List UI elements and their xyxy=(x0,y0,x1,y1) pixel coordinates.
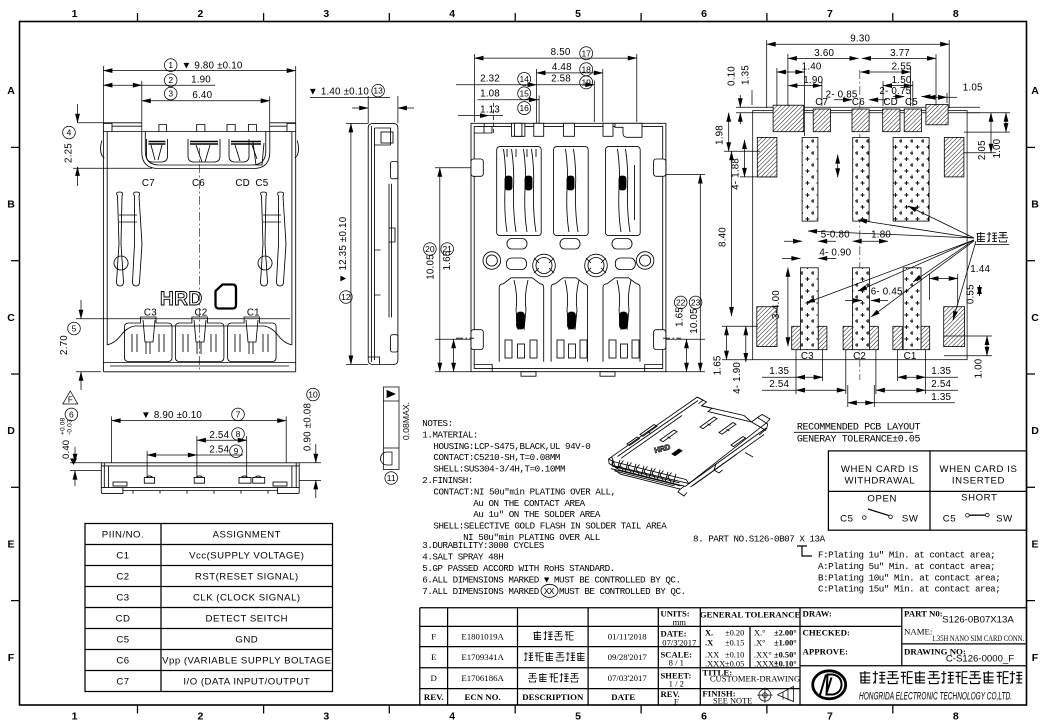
svg-text:2.55: 2.55 xyxy=(892,62,912,73)
svg-text:4- 1.90: 4- 1.90 xyxy=(732,362,743,394)
svg-text:C5: C5 xyxy=(116,635,129,646)
svg-text:▼ 12.35 ±0.10: ▼ 12.35 ±0.10 xyxy=(338,216,349,283)
svg-text:±0.50°: ±0.50° xyxy=(774,651,797,660)
svg-text:2.32: 2.32 xyxy=(480,74,500,85)
svg-text:HONGRIDA ELECTRONIC TECHNOLOGY: HONGRIDA ELECTRONIC TECHNOLOGY CO,LTD. xyxy=(859,691,1012,703)
svg-text:.XX: .XX xyxy=(705,651,719,660)
svg-text:OPEN: OPEN xyxy=(867,493,897,504)
svg-text:PIIN/NO.: PIIN/NO. xyxy=(102,530,144,541)
svg-text:3.77: 3.77 xyxy=(890,48,910,59)
svg-text:5.GP PASSED ACCORD WITH RoHS S: 5.GP PASSED ACCORD WITH RoHS STANDARD. xyxy=(422,563,614,574)
svg-text:19: 19 xyxy=(581,77,591,87)
svg-text:F: F xyxy=(1032,652,1039,664)
svg-text:2.25: 2.25 xyxy=(64,143,75,163)
svg-text:0.10: 0.10 xyxy=(726,66,737,86)
svg-text:HRD: HRD xyxy=(160,289,203,310)
svg-text:2.54: 2.54 xyxy=(209,445,229,456)
svg-text:SHORT: SHORT xyxy=(961,493,997,504)
svg-text:1.44: 1.44 xyxy=(970,264,990,275)
svg-text:.XX°: .XX° xyxy=(754,651,772,660)
svg-text:1.35: 1.35 xyxy=(769,366,789,377)
svg-text:SEE NOTE: SEE NOTE xyxy=(713,697,752,706)
svg-text:0.40: 0.40 xyxy=(61,440,72,459)
svg-text:0.08MAX.: 0.08MAX. xyxy=(401,402,411,440)
svg-text:E: E xyxy=(431,652,436,662)
svg-text:RST(RESET SIGNAL): RST(RESET SIGNAL) xyxy=(195,572,299,583)
svg-text:C7: C7 xyxy=(116,677,129,688)
svg-text:8: 8 xyxy=(953,711,959,723)
svg-text:8. PART NO.S126-0B07 X 13A: 8. PART NO.S126-0B07 X 13A xyxy=(693,534,826,545)
svg-text:C5: C5 xyxy=(840,514,853,525)
svg-text:WHEN CARD IS: WHEN CARD IS xyxy=(841,464,919,475)
svg-text:C3: C3 xyxy=(116,593,129,604)
svg-text:CONTACT:NI 50u″min PLATING OVE: CONTACT:NI 50u″min PLATING OVER ALL, xyxy=(433,486,615,497)
svg-text:07/3'2017: 07/3'2017 xyxy=(662,637,697,647)
svg-text:3.DURABILITY:3000 CYCLES: 3.DURABILITY:3000 CYCLES xyxy=(422,540,544,551)
svg-text:A: A xyxy=(1031,85,1039,97)
svg-text:01/11'2018: 01/11'2018 xyxy=(608,632,647,642)
svg-text:DATE: DATE xyxy=(611,692,635,702)
svg-text:20: 20 xyxy=(425,244,435,254)
svg-text:17: 17 xyxy=(581,48,591,58)
svg-text:DETECT SEITCH: DETECT SEITCH xyxy=(206,614,289,625)
svg-text:18: 18 xyxy=(581,64,591,74)
svg-text:F: F xyxy=(8,652,15,664)
svg-text:15: 15 xyxy=(519,88,529,98)
svg-text:0.55: 0.55 xyxy=(966,284,977,304)
svg-text:E: E xyxy=(7,539,14,551)
svg-text:1.00: 1.00 xyxy=(992,138,1003,158)
svg-text:1.35: 1.35 xyxy=(931,392,951,403)
svg-text:C2: C2 xyxy=(116,572,129,583)
svg-text:1.35: 1.35 xyxy=(741,65,752,85)
svg-text:C5: C5 xyxy=(943,514,956,525)
svg-text:4.48: 4.48 xyxy=(552,62,572,73)
svg-text:Vcc(SUPPLY VOLTAGE): Vcc(SUPPLY VOLTAGE) xyxy=(189,551,304,562)
svg-text:5: 5 xyxy=(575,8,581,20)
svg-text:1.98: 1.98 xyxy=(715,125,726,145)
svg-text:F: F xyxy=(431,632,436,642)
svg-text:10: 10 xyxy=(308,390,318,400)
svg-text:4- 1.88: 4- 1.88 xyxy=(731,158,742,190)
svg-text:0.90 ±0.08: 0.90 ±0.08 xyxy=(303,403,314,452)
svg-text:1: 1 xyxy=(72,711,78,723)
svg-text:±0.10: ±0.10 xyxy=(725,651,744,660)
svg-text:2.FININSH:: 2.FININSH: xyxy=(422,475,473,486)
svg-text:DRAW:: DRAW: xyxy=(803,609,832,619)
svg-text:C1: C1 xyxy=(904,351,917,362)
svg-text:GND: GND xyxy=(235,635,258,646)
svg-text:I/O (DATA INPUT/OUTPUT: I/O (DATA INPUT/OUTPUT xyxy=(183,677,310,688)
svg-text:▼ 9.80 ±0.10: ▼ 9.80 ±0.10 xyxy=(182,61,243,72)
svg-text:2- 0.85: 2- 0.85 xyxy=(826,90,858,101)
svg-text:±0.10°: ±0.10° xyxy=(774,660,797,669)
svg-text:X.: X. xyxy=(705,629,713,638)
svg-text:INSERTED: INSERTED xyxy=(952,475,1005,486)
svg-text:Vpp (VARIABLE SUPPLY BOLTAGE: Vpp (VARIABLE SUPPLY BOLTAGE xyxy=(162,656,331,667)
svg-text:3-4.00: 3-4.00 xyxy=(771,290,782,319)
svg-text:14: 14 xyxy=(519,74,529,84)
svg-text:C3: C3 xyxy=(144,307,157,318)
svg-text:3: 3 xyxy=(168,89,173,99)
svg-text:09/28'2017: 09/28'2017 xyxy=(608,652,648,662)
svg-text:NOTES:: NOTES: xyxy=(422,418,452,429)
svg-text:E1706186A: E1706186A xyxy=(461,673,504,683)
svg-text:REV.: REV. xyxy=(424,692,444,702)
svg-text:WHEN CARD IS: WHEN CARD IS xyxy=(939,464,1017,475)
svg-text:.X: .X xyxy=(705,639,713,648)
svg-text:CHECKED:: CHECKED: xyxy=(803,628,850,638)
svg-text:2.54: 2.54 xyxy=(209,430,229,441)
svg-text:S126-0B07X13A: S126-0B07X13A xyxy=(942,615,1014,626)
svg-text:E: E xyxy=(1031,539,1038,551)
svg-text:1.35: 1.35 xyxy=(931,366,951,377)
svg-text:HOUSING:LCP-S475,BLACK,UL 94V-: HOUSING:LCP-S475,BLACK,UL 94V-0 xyxy=(433,441,590,452)
svg-text:4: 4 xyxy=(449,8,455,20)
svg-text:±1.00°: ±1.00° xyxy=(774,639,797,648)
svg-text:6.ALL DIMENSIONS MARKED ▼ MUS: 6.ALL DIMENSIONS MARKED ▼ MUST BE CONTRO… xyxy=(422,574,680,585)
svg-text:D: D xyxy=(431,673,437,683)
svg-text:E1709341A: E1709341A xyxy=(461,652,504,662)
svg-text:ECN NO.: ECN NO. xyxy=(465,692,501,702)
svg-text:CD: CD xyxy=(116,614,131,625)
svg-text:8: 8 xyxy=(236,429,241,439)
svg-text:1: 1 xyxy=(168,60,173,70)
svg-text:C6: C6 xyxy=(116,656,129,667)
svg-text:7: 7 xyxy=(827,711,833,723)
svg-text:B: B xyxy=(7,199,15,211)
svg-text:C: C xyxy=(1031,312,1039,324)
svg-text:2: 2 xyxy=(168,75,173,85)
svg-text:1.50: 1.50 xyxy=(892,75,912,86)
svg-text:2.54: 2.54 xyxy=(769,379,789,390)
svg-text:6.40: 6.40 xyxy=(192,90,212,101)
svg-text:5: 5 xyxy=(575,711,581,723)
svg-text:4: 4 xyxy=(67,128,72,138)
svg-text:5: 5 xyxy=(72,324,77,334)
svg-text:SW: SW xyxy=(902,514,919,525)
svg-text:1.35H NANO SIM CARD CONN.: 1.35H NANO SIM CARD CONN. xyxy=(932,633,1024,643)
svg-text:CONTACT:C5210-SH,T=0.08MM: CONTACT:C5210-SH,T=0.08MM xyxy=(433,452,560,463)
svg-text:C5: C5 xyxy=(905,97,918,108)
svg-text:GENERAY TOLERANCE±0.05: GENERAY TOLERANCE±0.05 xyxy=(797,434,921,445)
svg-text:3: 3 xyxy=(323,711,329,723)
svg-text:RECOMMENDED PCB LAYOUT: RECOMMENDED PCB LAYOUT xyxy=(797,422,921,433)
svg-text:1.MATERIAL:: 1.MATERIAL: xyxy=(422,429,478,440)
svg-text:7: 7 xyxy=(236,409,241,419)
svg-text:12: 12 xyxy=(341,292,351,302)
svg-text:ASSIGNMENT: ASSIGNMENT xyxy=(213,530,281,541)
svg-text:▼ 1.40 ±0.10: ▼ 1.40 ±0.10 xyxy=(308,87,369,98)
svg-text:6- 0.45: 6- 0.45 xyxy=(871,286,903,297)
svg-text:9.30: 9.30 xyxy=(850,34,870,45)
svg-text:07/03'2017: 07/03'2017 xyxy=(608,673,648,683)
svg-text:CD: CD xyxy=(235,178,250,189)
svg-text:10.05: 10.05 xyxy=(426,254,437,280)
svg-text:1: 1 xyxy=(72,8,78,20)
svg-text:Au ON THE CONTACT AREA: Au ON THE CONTACT AREA xyxy=(473,498,585,509)
svg-text:1.08: 1.08 xyxy=(480,89,500,100)
svg-text:D: D xyxy=(7,425,15,437)
svg-text:1.90: 1.90 xyxy=(803,75,823,86)
svg-text:±0.15: ±0.15 xyxy=(725,639,744,648)
svg-text:2- 0.75: 2- 0.75 xyxy=(879,86,911,97)
svg-text:2: 2 xyxy=(197,8,203,20)
svg-text:8.40: 8.40 xyxy=(718,227,729,247)
svg-text:2.70: 2.70 xyxy=(59,335,70,355)
svg-text:D: D xyxy=(1031,425,1039,437)
svg-text:1.05: 1.05 xyxy=(963,83,983,94)
svg-text:PART N0:: PART N0: xyxy=(904,609,943,619)
svg-text:11: 11 xyxy=(387,473,396,483)
svg-text:CD: CD xyxy=(883,97,898,108)
svg-text:1 / 2: 1 / 2 xyxy=(669,679,684,689)
svg-text:SW: SW xyxy=(996,514,1013,525)
svg-text:mm: mm xyxy=(673,617,687,627)
svg-text:4.SALT SPRAY 48H: 4.SALT SPRAY 48H xyxy=(422,552,503,563)
svg-text:2.58: 2.58 xyxy=(551,74,571,85)
svg-text:▼ 8.90 ±0.10: ▼ 8.90 ±0.10 xyxy=(141,410,202,421)
svg-text:23: 23 xyxy=(691,297,701,307)
svg-text:NAME:: NAME: xyxy=(904,627,932,637)
svg-text:C:Plating 15u″ Min. at contact: C:Plating 15u″ Min. at contact area; xyxy=(818,584,1000,595)
svg-text:C6: C6 xyxy=(192,178,205,189)
svg-text:C: C xyxy=(7,312,15,324)
svg-text:2: 2 xyxy=(197,711,203,723)
svg-text:2.05: 2.05 xyxy=(977,140,988,160)
svg-text:7: 7 xyxy=(827,8,833,20)
svg-text:F:Plating 1u″ Min. at contact: F:Plating 1u″ Min. at contact area; xyxy=(818,550,995,561)
svg-text:X.°: X.° xyxy=(754,629,766,638)
svg-text:GENERAL TOLERANCE: GENERAL TOLERANCE xyxy=(700,610,801,620)
svg-text:3: 3 xyxy=(323,8,329,20)
svg-text:9: 9 xyxy=(234,446,239,456)
svg-text:6: 6 xyxy=(701,8,707,20)
svg-text:1.40: 1.40 xyxy=(802,62,822,73)
svg-text:.X°: .X° xyxy=(754,639,766,648)
svg-text:C7: C7 xyxy=(142,178,155,189)
svg-text:13: 13 xyxy=(373,86,383,96)
svg-text:B: B xyxy=(1031,199,1039,211)
svg-text:CUSTOMER-DRAWING: CUSTOMER-DRAWING xyxy=(710,674,800,684)
svg-text:E1801019A: E1801019A xyxy=(461,632,504,642)
svg-text:SHELL:SELECTIVE GOLD FLASH IN: SHELL:SELECTIVE GOLD FLASH IN SOLDER TAI… xyxy=(433,521,667,532)
svg-text:10.05: 10.05 xyxy=(689,308,700,334)
svg-text:22: 22 xyxy=(676,297,686,307)
svg-text:F: F xyxy=(674,697,679,707)
svg-text:+0.08: +0.08 xyxy=(60,417,67,435)
svg-text:CLK (CLOCK SIGNAL): CLK (CLOCK SIGNAL) xyxy=(193,593,301,604)
svg-text:5-0.80: 5-0.80 xyxy=(821,230,850,241)
svg-text:8.50: 8.50 xyxy=(551,47,571,58)
svg-text:1.65: 1.65 xyxy=(713,355,724,375)
svg-text:6: 6 xyxy=(69,409,74,419)
svg-text:8: 8 xyxy=(953,8,959,20)
svg-text:4: 4 xyxy=(449,711,455,723)
svg-text:4- 0.90: 4- 0.90 xyxy=(819,248,851,259)
svg-text:B:Plating 10u″ Min. at contact: B:Plating 10u″ Min. at contact area; xyxy=(818,572,1000,583)
svg-text:A:Plating 5u″ Min. at contact: A:Plating 5u″ Min. at contact area; xyxy=(818,561,995,572)
svg-text:SHELL:SUS304-3/4H,T=0.10MM: SHELL:SUS304-3/4H,T=0.10MM xyxy=(433,464,565,475)
svg-text:6: 6 xyxy=(701,711,707,723)
svg-text:APPROVE:: APPROVE: xyxy=(803,647,849,657)
svg-text:1.90: 1.90 xyxy=(191,75,211,86)
svg-text:C-S126-0000_F: C-S126-0000_F xyxy=(946,654,1014,665)
svg-text:A: A xyxy=(7,85,15,97)
svg-text:1.80: 1.80 xyxy=(871,230,891,241)
svg-text:DESCRIPTION: DESCRIPTION xyxy=(522,692,584,702)
svg-text:8 / 1: 8 / 1 xyxy=(669,658,684,668)
svg-text:1.13: 1.13 xyxy=(480,105,500,116)
svg-text:2.54: 2.54 xyxy=(931,379,951,390)
svg-text:7.ALL DIMENSIONS MARKED XX MU: 7.ALL DIMENSIONS MARKED XX MUST BE CONTR… xyxy=(422,586,685,597)
svg-text:C3: C3 xyxy=(801,351,814,362)
svg-text:-0.03: -0.03 xyxy=(67,419,74,435)
svg-text:21: 21 xyxy=(442,244,452,254)
svg-text:F: F xyxy=(68,396,73,405)
svg-text:WITHDRAWAL: WITHDRAWAL xyxy=(844,475,915,486)
svg-text:16: 16 xyxy=(519,103,529,113)
svg-text:±0.20: ±0.20 xyxy=(725,629,744,638)
svg-text:3.60: 3.60 xyxy=(814,48,834,59)
svg-text:1.00: 1.00 xyxy=(973,358,984,378)
svg-text:Au 1u″ ON THE SOLDER AREA: Au 1u″ ON THE SOLDER AREA xyxy=(473,509,601,520)
svg-text:C1: C1 xyxy=(247,307,260,318)
svg-text:C5: C5 xyxy=(255,178,268,189)
svg-text:1.65: 1.65 xyxy=(675,307,686,327)
svg-text:C1: C1 xyxy=(116,551,129,562)
svg-text:±2.00°: ±2.00° xyxy=(774,629,797,638)
svg-text:C2: C2 xyxy=(853,351,866,362)
